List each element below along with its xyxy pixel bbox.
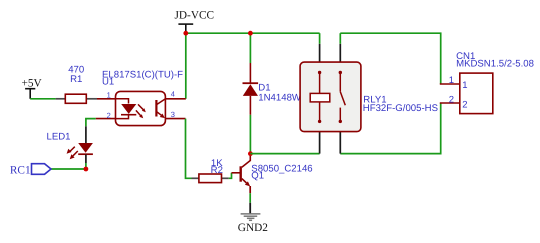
pin 1 stub	[97, 98, 116, 100]
junction dot at D1 top branch	[248, 31, 253, 36]
relay coil	[319, 73, 321, 94]
wire U1 pin2 to LED1	[86, 119, 96, 127]
wire LED1 to RC1 junction	[85, 163, 87, 169]
svg-text:LED1: LED1	[47, 131, 71, 142]
relay RLY1	[300, 33, 361, 153]
relay bottom pins	[319, 132, 321, 154]
wire R2 to Q1 base	[229, 173, 232, 179]
power symbol +5V	[22, 78, 43, 99]
svg-text:4: 4	[171, 90, 175, 99]
svg-text:GND2: GND2	[238, 222, 268, 234]
svg-text:2: 2	[107, 111, 111, 120]
port RC1	[10, 164, 51, 177]
wire relay switch bottom to CN1 pin2	[340, 103, 440, 154]
LED1 light arrow b	[73, 151, 78, 156]
CN1 pin2 stub	[440, 102, 460, 104]
CN1 pin1 stub	[440, 83, 460, 85]
U1 body	[116, 91, 166, 125]
wire +5V to R1	[30, 98, 55, 100]
U1 internal LED	[116, 99, 129, 104]
LED D LED1	[67, 126, 93, 163]
relay body	[300, 62, 361, 132]
svg-text:1N4148W: 1N4148W	[258, 93, 302, 104]
wire U1 pin3 down to R2	[186, 119, 192, 179]
svg-text:R2: R2	[211, 165, 223, 176]
svg-text:HF32F-G/005-HS: HF32F-G/005-HS	[363, 103, 438, 114]
optocoupler U1 EL817S1(C)(TU)-F	[96, 91, 186, 125]
wire relay switch top to CN1 pin1 branch	[340, 33, 440, 84]
U1 phototransistor	[155, 100, 157, 117]
wire collector node to relay coil bottom	[250, 153, 319, 155]
wire JD-VCC rail to relay coil top	[186, 32, 320, 34]
svg-text:Q1: Q1	[251, 170, 264, 181]
wire JD-VCC down to U1 pin4	[185, 33, 187, 99]
svg-text:RC1: RC1	[10, 164, 31, 176]
U1 light arrow a	[138, 104, 143, 109]
svg-text:2: 2	[462, 99, 467, 110]
junction dot Q1 collector node	[248, 151, 253, 156]
wire D1 to collector junction	[249, 115, 251, 154]
pin 2 stub	[96, 118, 116, 120]
CN1 body	[460, 73, 493, 114]
power symbol JD-VCC	[175, 10, 215, 34]
relay top pins	[319, 44, 321, 62]
wire JD-VCC rail down to D1	[249, 33, 251, 63]
svg-text:2: 2	[449, 95, 454, 106]
U1 light arrow b	[136, 110, 141, 115]
pin 4 stub	[165, 98, 185, 100]
LED1 light arrow a	[70, 147, 75, 152]
connector CN1	[440, 73, 493, 114]
junction dot at JD-VCC stem	[183, 31, 188, 36]
svg-text:1: 1	[462, 80, 467, 91]
diode D1 1N4148W	[243, 63, 259, 115]
ground GND2	[238, 203, 268, 234]
svg-text:MKDSN1.5/2-5.08: MKDSN1.5/2-5.08	[456, 59, 534, 70]
svg-text:1: 1	[449, 75, 454, 86]
junction dot LED1/RC1	[84, 167, 89, 172]
resistor R1	[56, 94, 97, 103]
svg-text:JD-VCC: JD-VCC	[175, 10, 215, 22]
svg-text:3: 3	[171, 110, 175, 119]
relay switch contact	[339, 73, 341, 92]
svg-text:U1: U1	[102, 77, 114, 88]
pin 3 stub	[165, 118, 185, 120]
svg-text:R1: R1	[70, 74, 82, 85]
svg-text:1: 1	[107, 91, 111, 100]
transistor Q1 S8050	[232, 154, 251, 194]
resistor R2	[192, 174, 229, 183]
wire Q1 emitter to GND2	[249, 193, 251, 203]
